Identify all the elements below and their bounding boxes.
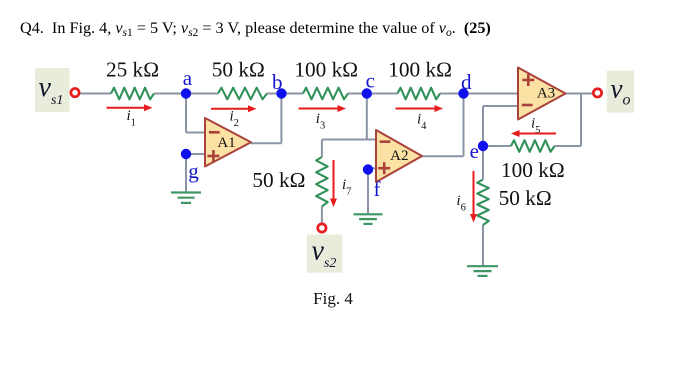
svg-text:e: e <box>470 139 479 163</box>
svg-text:d: d <box>461 70 472 94</box>
svg-text:i1: i1 <box>127 108 136 129</box>
svg-text:i6: i6 <box>456 193 465 214</box>
svg-text:100 kΩ: 100 kΩ <box>294 58 358 82</box>
svg-text:i7: i7 <box>342 177 351 198</box>
svg-text:50 kΩ: 50 kΩ <box>252 168 305 192</box>
svg-text:A1: A1 <box>217 135 235 151</box>
svg-text:50 kΩ: 50 kΩ <box>499 186 552 210</box>
svg-text:25 kΩ: 25 kΩ <box>106 58 159 82</box>
svg-text:g: g <box>188 159 199 183</box>
svg-text:a: a <box>183 66 193 90</box>
svg-text:50 kΩ: 50 kΩ <box>212 58 265 82</box>
svg-text:A2: A2 <box>390 148 408 164</box>
svg-text:100 kΩ: 100 kΩ <box>501 158 565 182</box>
svg-text:A3: A3 <box>537 86 555 102</box>
svg-text:Fig. 4: Fig. 4 <box>313 289 353 308</box>
svg-text:f: f <box>374 177 381 201</box>
svg-text:c: c <box>366 69 375 93</box>
svg-text:i2: i2 <box>230 109 239 130</box>
svg-text:100 kΩ: 100 kΩ <box>388 58 452 82</box>
svg-text:i4: i4 <box>417 112 427 133</box>
svg-text:i3: i3 <box>316 111 325 132</box>
svg-text:b: b <box>272 70 283 94</box>
